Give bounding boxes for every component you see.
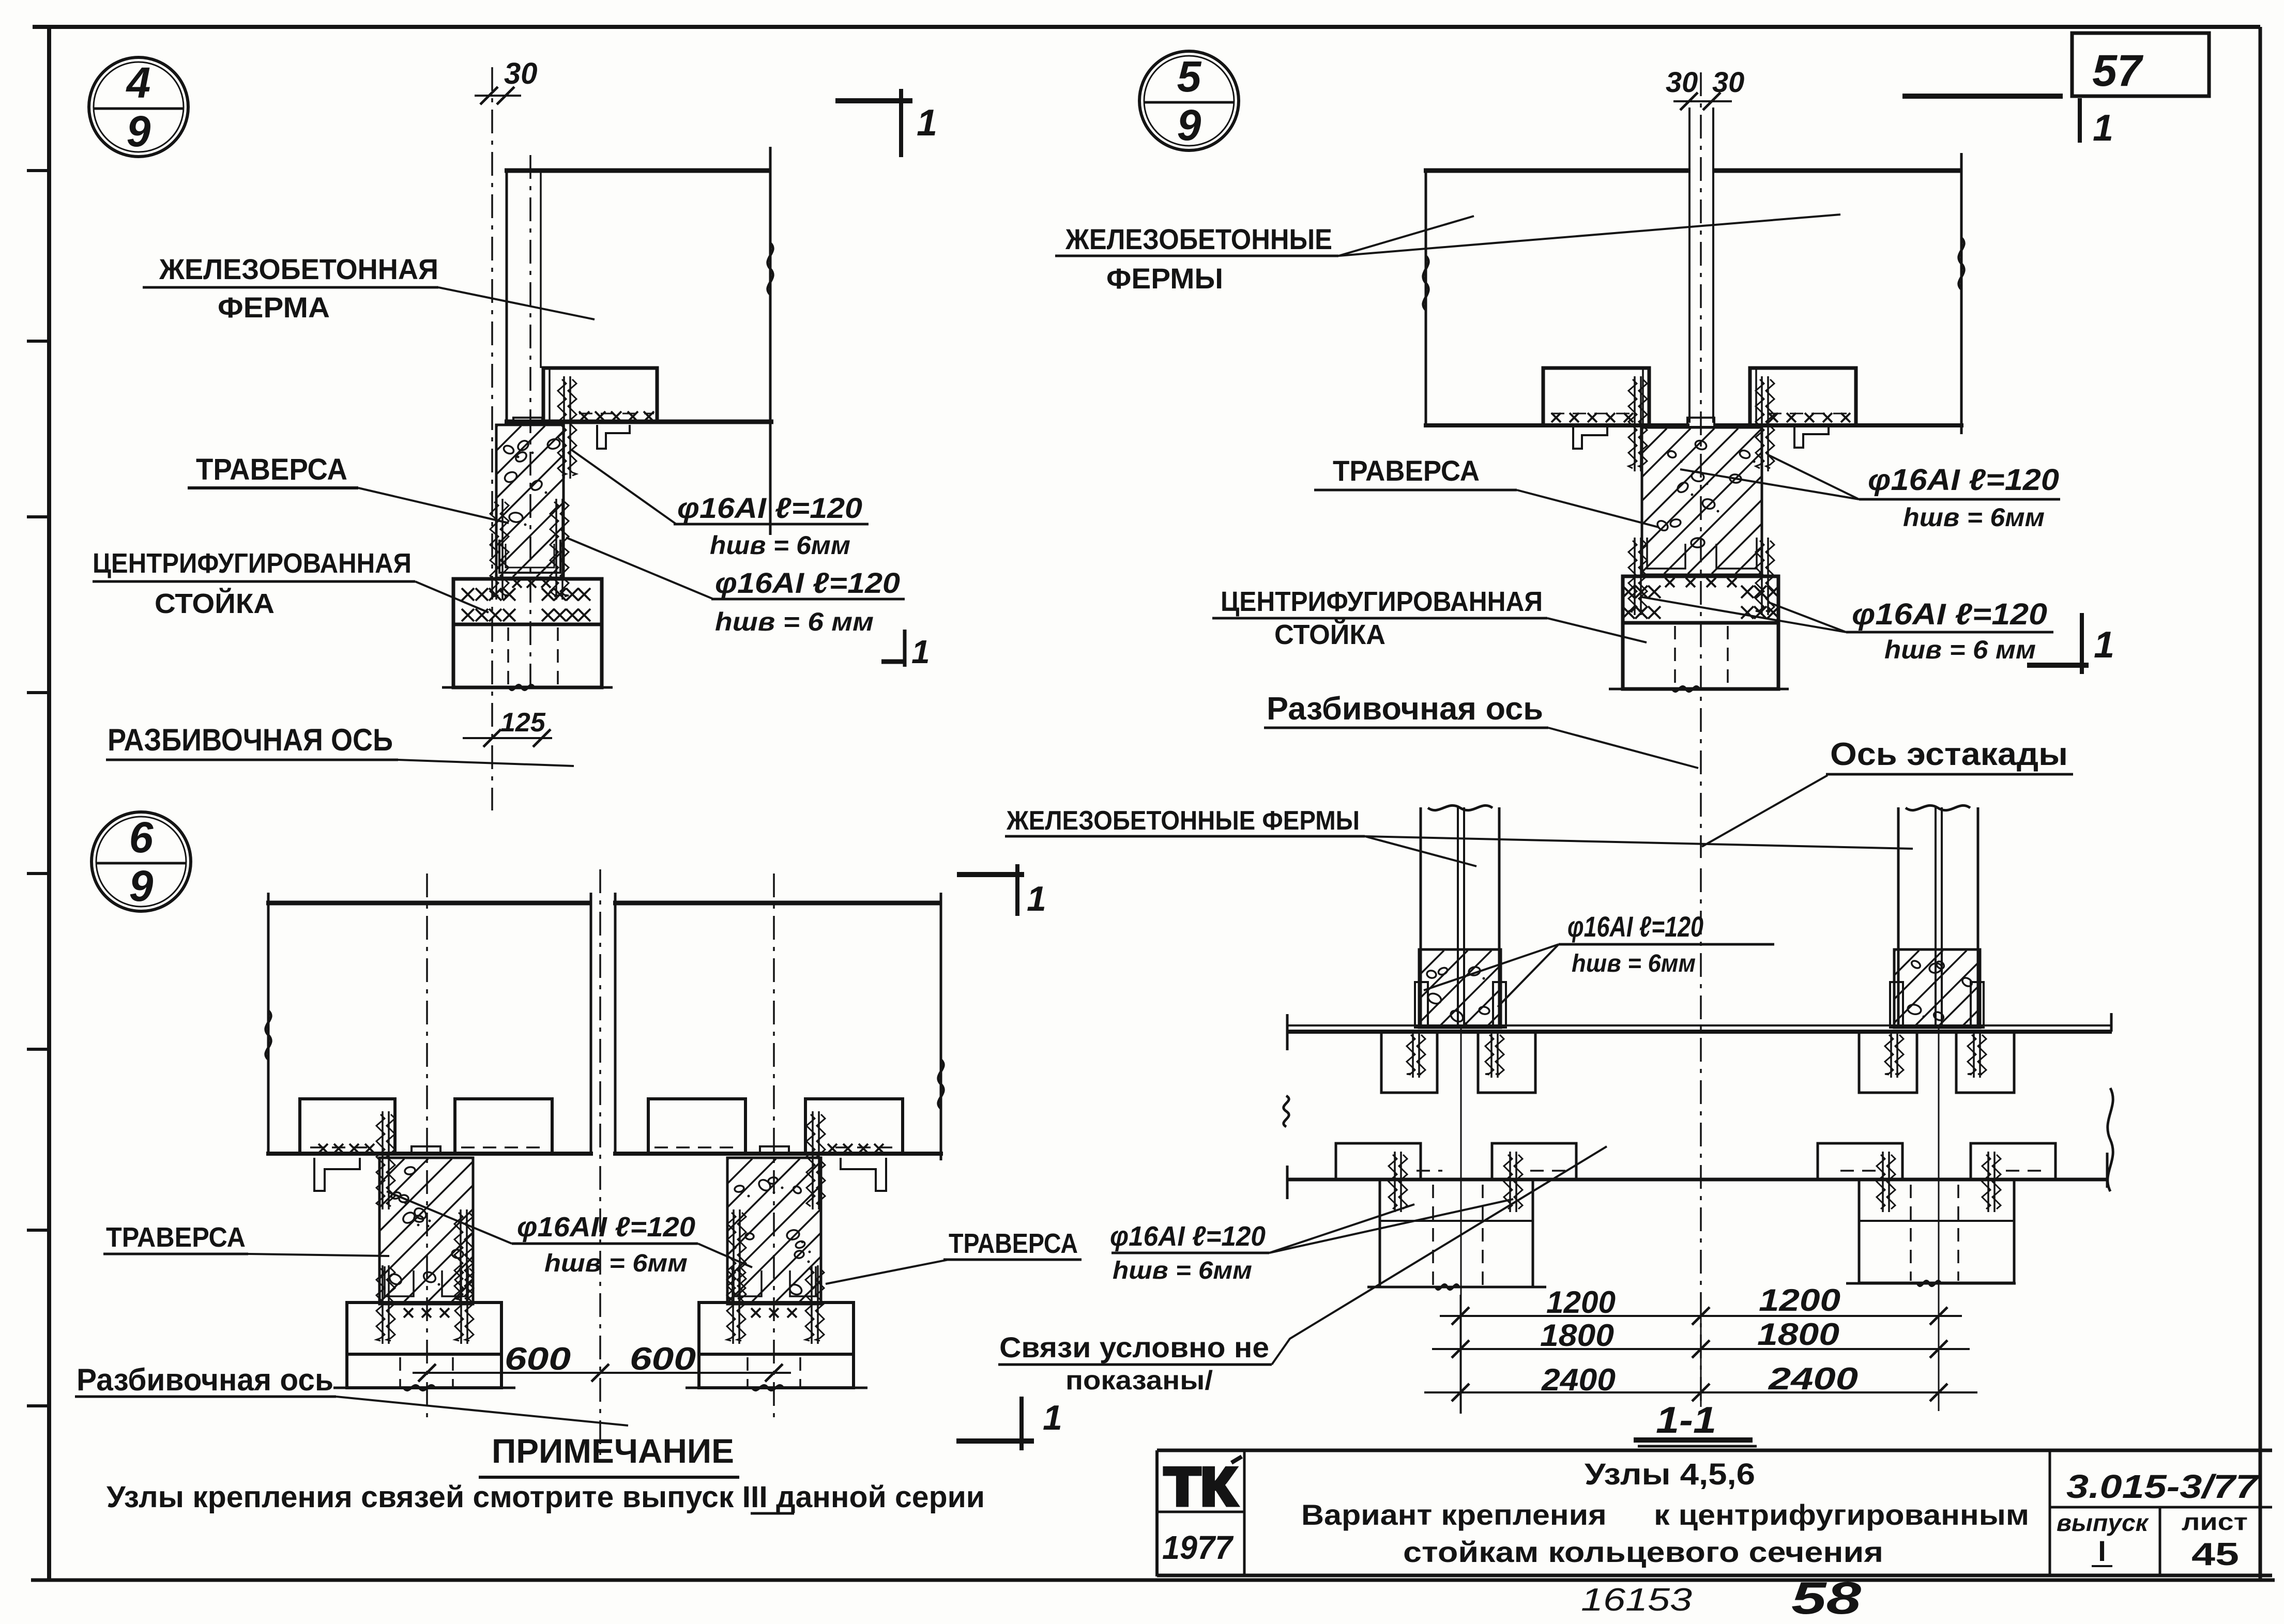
plate between trusses (detail 5) bbox=[1687, 418, 1714, 427]
svg-text:СТОЙКА: СТОЙКА bbox=[155, 588, 275, 619]
angle bracket left (detail 6) bbox=[314, 1158, 360, 1191]
left column bottom cut (detail 6) bbox=[333, 1385, 515, 1390]
right column body (detail 6) bbox=[699, 1354, 854, 1388]
svg-text:ТРАВЕРСА: ТРАВЕРСА bbox=[196, 453, 347, 486]
center axis (detail 6) bbox=[599, 869, 601, 1455]
weld marks (detail 6) bbox=[318, 1144, 884, 1153]
seat anchor rod right (detail 6) bbox=[806, 1111, 825, 1209]
svg-text:2400: 2400 bbox=[1541, 1362, 1616, 1397]
label железобетонная ферма (detail 4) bbox=[143, 253, 438, 324]
left truss (detail 6) bbox=[266, 893, 593, 1154]
left pair top break (section 1-1) bbox=[1428, 805, 1493, 810]
svg-text:показаны/: показаны/ bbox=[1065, 1366, 1213, 1396]
right truss break (detail 5) bbox=[1959, 238, 1964, 289]
column head (detail 4) bbox=[453, 579, 602, 624]
archive number 16153 bbox=[1581, 1582, 1692, 1618]
traverse hatched block (detail 5) bbox=[1498, 427, 1928, 575]
column body (detail 4) bbox=[453, 624, 602, 687]
svg-text:Вариант крепления к центрифуг: Вариант крепления к центрифугированным bbox=[1301, 1498, 2029, 1531]
lower boxes left (section 1-1) bbox=[1336, 1143, 1576, 1212]
svg-text:лист: лист bbox=[2182, 1508, 2248, 1535]
left truss break (detail 5) bbox=[1423, 256, 1428, 310]
svg-text:ЦЕНТРИФУГИРОВАННАЯ: ЦЕНТРИФУГИРОВАННАЯ bbox=[1221, 586, 1543, 617]
column head anchors (detail 5) bbox=[1622, 578, 1779, 619]
svg-text:ЖЕЛЕЗОБЕТОННЫЕ ФЕРМЫ: ЖЕЛЕЗОБЕТОННЫЕ ФЕРМЫ bbox=[1006, 806, 1360, 836]
right band break (section 1-1) bbox=[2108, 1088, 2113, 1191]
left traverse channel+rod (detail 6) bbox=[385, 1209, 473, 1303]
truss edge break (detail 4) bbox=[768, 243, 773, 295]
left traverse hatched (detail 6) bbox=[236, 1158, 618, 1304]
label ф16АI l=120 lower (detail 4) bbox=[711, 566, 905, 636]
svg-text:φ16АΙ ℓ=120: φ16АΙ ℓ=120 bbox=[715, 566, 900, 599]
leader to column (detail 5) bbox=[1547, 618, 1647, 642]
label связи условно не показаны bbox=[998, 1331, 1272, 1396]
section mark 1 bottom (detail 4) bbox=[881, 630, 930, 670]
dimension 30 30 (detail 5) bbox=[1666, 66, 1744, 110]
left column plan (section 1-1) bbox=[1380, 1179, 1533, 1287]
center axis (section 1-1) bbox=[1700, 868, 1702, 1407]
svg-text:1: 1 bbox=[2094, 624, 2114, 666]
svg-text:1977: 1977 bbox=[1162, 1529, 1234, 1566]
right truss (detail 5) bbox=[1713, 153, 1963, 434]
svg-text:57: 57 bbox=[2092, 46, 2144, 96]
right column axis (detail 6) bbox=[773, 874, 775, 1421]
section mark 1 bottom (detail 6) bbox=[956, 1397, 1062, 1450]
label ф16АI (section 1-1 bottom-left) bbox=[1110, 1221, 1269, 1284]
лист 45 cell bbox=[2182, 1508, 2248, 1572]
svg-text:4: 4 bbox=[126, 58, 151, 107]
svg-text:ТРАВЕРСА: ТРАВЕРСА bbox=[106, 1222, 246, 1253]
label разбивочная ось (detail 4) bbox=[106, 723, 398, 760]
svg-text:1: 1 bbox=[1027, 879, 1046, 918]
right truss break (detail 6) bbox=[938, 1060, 943, 1109]
label ф16АI (section 1-1 top) bbox=[1559, 910, 1774, 977]
выпуск I cell bbox=[2057, 1509, 2150, 1567]
angle bracket right (detail 6) bbox=[841, 1158, 886, 1191]
svg-text:ЖЕЛЕЗОБЕТОННАЯ: ЖЕЛЕЗОБЕТОННАЯ bbox=[159, 253, 438, 285]
right traverse hatched (detail 6) bbox=[584, 1158, 966, 1304]
column bottom cut (detail 4) bbox=[442, 685, 613, 690]
svg-text:hшв = 6мм: hшв = 6мм bbox=[1903, 503, 2045, 532]
upper traverse line (section 1-1) bbox=[1286, 1013, 2112, 1050]
svg-text:φ16АΙΙ ℓ=120: φ16АΙΙ ℓ=120 bbox=[517, 1212, 695, 1243]
border frame bottom bbox=[31, 1579, 2275, 1582]
border frame top bbox=[33, 25, 2260, 29]
detail marker 4/9 bbox=[89, 57, 188, 157]
border frame left bbox=[47, 25, 51, 1582]
axis line (разбивочная ось) detail 4 bbox=[491, 67, 493, 810]
svg-text:hшв = 6мм: hшв = 6мм bbox=[1572, 950, 1696, 977]
svg-text:1: 1 bbox=[1043, 1398, 1062, 1437]
svg-text:30: 30 bbox=[1666, 66, 1698, 98]
leader to truss (detail 4) bbox=[438, 287, 595, 319]
bearing seat (detail 4) bbox=[543, 368, 657, 422]
leader to left traverse (detail 6) bbox=[248, 1254, 389, 1256]
dimension row 1800 1800 bbox=[1432, 1317, 1970, 1358]
title line 3 bbox=[1403, 1536, 1883, 1568]
right truss (detail 6) bbox=[613, 893, 943, 1160]
truss outline (detail 4) bbox=[505, 147, 773, 535]
svg-text:hшв = 6мм: hшв = 6мм bbox=[544, 1250, 688, 1277]
truss gap edges (detail 5) bbox=[1689, 108, 1713, 423]
leaders (section 1-1 top) bbox=[1424, 944, 1559, 1007]
svg-text:ЖЕЛЕЗОБЕТОННЫЕ: ЖЕЛЕЗОБЕТОННЫЕ bbox=[1065, 223, 1332, 255]
bearing seats (detail 6) bbox=[300, 1099, 903, 1154]
leaders to trusses (detail 5) bbox=[1338, 215, 1840, 256]
svg-text:hшв = 6мм: hшв = 6мм bbox=[1113, 1257, 1252, 1284]
svg-text:2400: 2400 bbox=[1768, 1361, 1858, 1396]
dimension 125 (detail 4) bbox=[463, 708, 552, 747]
title block frame bbox=[1157, 1450, 2272, 1576]
left truss pair bars (section 1-1) bbox=[1421, 807, 1499, 1414]
svg-text:стойкам кольцевого сечения: стойкам кольцевого сечения bbox=[1403, 1536, 1883, 1568]
section mark 1 top (detail 4) bbox=[835, 89, 937, 157]
right column plan bottom (section 1-1) bbox=[1846, 1281, 2016, 1285]
leaders from ф16АII (detail 6) bbox=[387, 1191, 752, 1267]
detail marker 5/9 bbox=[1139, 51, 1239, 150]
right hatched joint (section 1-1) bbox=[1819, 949, 2062, 1028]
svg-text:φ16АΙ ℓ=120: φ16АΙ ℓ=120 bbox=[677, 492, 862, 524]
leader связи bbox=[1272, 1146, 1607, 1365]
upper anchor pockets right (section 1-1) bbox=[1859, 1032, 2014, 1093]
label ф16АI l=120 upper (detail 4) bbox=[674, 492, 869, 560]
svg-text:φ16АΙ ℓ=120: φ16АΙ ℓ=120 bbox=[1852, 597, 2047, 631]
right pair top break (section 1-1) bbox=[1906, 805, 1970, 810]
sheet number 58 bbox=[1791, 1572, 1861, 1623]
traverse bottom rods (detail 4) bbox=[490, 499, 569, 600]
left truss (detail 5) bbox=[1424, 171, 1689, 425]
column head anchor hatch (detail 4) bbox=[462, 578, 590, 621]
label разбивочная ось (detail 6) bbox=[75, 1362, 336, 1397]
label траверса left (detail 6) bbox=[103, 1222, 248, 1254]
svg-text:ЦЕНТРИФУГИРОВАННАЯ: ЦЕНТРИФУГИРОВАННАЯ bbox=[93, 548, 412, 579]
note text bbox=[106, 1480, 985, 1514]
svg-text:Узлы крепления связей смотрите: Узлы крепления связей смотрите выпуск II… bbox=[106, 1480, 985, 1514]
section title 1-1 bbox=[1634, 1400, 1757, 1446]
detail marker 6/9 bbox=[92, 812, 191, 911]
svg-text:1200: 1200 bbox=[1546, 1285, 1616, 1320]
svg-text:9: 9 bbox=[127, 107, 151, 156]
svg-text:Связи условно не: Связи условно не bbox=[999, 1331, 1269, 1363]
svg-text:ФЕРМА: ФЕРМА bbox=[218, 291, 330, 324]
svg-text:I: I bbox=[2098, 1535, 2106, 1567]
traverse channels (detail 5) bbox=[1647, 538, 1757, 569]
page number box bbox=[2072, 33, 2209, 96]
svg-text:30: 30 bbox=[504, 57, 538, 90]
svg-text:hшв = 6 мм: hшв = 6 мм bbox=[715, 607, 874, 636]
svg-text:1800: 1800 bbox=[1540, 1318, 1614, 1353]
svg-text:ФЕРМЫ: ФЕРМЫ bbox=[1106, 262, 1223, 295]
doc number 3.015-3/77 bbox=[2066, 1468, 2260, 1505]
label ф16АI upper (detail 5) bbox=[1859, 463, 2060, 532]
dimension row 1200 1200 bbox=[1440, 1283, 1962, 1414]
right column head (detail 6) bbox=[699, 1265, 854, 1354]
right seat (detail 5) bbox=[1750, 368, 1856, 425]
svg-text:600: 600 bbox=[505, 1341, 571, 1377]
svg-text:Ось эстакады: Ось эстакады bbox=[1830, 737, 2068, 772]
label железобетонные фермы (section 1-1) bbox=[1005, 806, 1365, 836]
leader to column (detail 4) bbox=[415, 581, 489, 612]
svg-text:5: 5 bbox=[1177, 52, 1202, 101]
svg-text:выпуск: выпуск bbox=[2057, 1509, 2150, 1536]
svg-text:hшв = 6 мм: hшв = 6 мм bbox=[1884, 635, 2036, 664]
left column head (detail 6) bbox=[347, 1265, 501, 1354]
left seat rod (detail 5) bbox=[1628, 376, 1647, 471]
leaders to traverse rods (detail 5) bbox=[1680, 455, 1859, 499]
right column bottom cut (detail 6) bbox=[686, 1385, 867, 1390]
angle bracket under seat (detail 4) bbox=[597, 425, 630, 449]
svg-text:Разбивочная ось: Разбивочная ось bbox=[77, 1362, 333, 1397]
label траверса right (detail 6) bbox=[943, 1228, 1082, 1260]
svg-text:ПРИМЕЧАНИЕ: ПРИМЕЧАНИЕ bbox=[492, 1432, 734, 1470]
svg-text:1: 1 bbox=[917, 102, 937, 144]
label центрифугированная стойка (detail 4) bbox=[93, 548, 415, 619]
svg-text:φ16АΙ ℓ=120: φ16АΙ ℓ=120 bbox=[1110, 1221, 1266, 1252]
label ось эстакады bbox=[1826, 737, 2073, 774]
left truss break (detail 6) bbox=[266, 1010, 271, 1060]
leader to traverse (detail 5) bbox=[1517, 490, 1658, 527]
svg-text:1800: 1800 bbox=[1757, 1317, 1839, 1352]
plate on traverse top (detail 4) bbox=[513, 418, 542, 425]
svg-text:6: 6 bbox=[129, 813, 154, 862]
left column axis (detail 6) bbox=[426, 874, 428, 1421]
left band break (section 1-1) bbox=[1284, 1096, 1289, 1127]
traverse bottom rods (detail 5) bbox=[1628, 538, 1774, 615]
section mark 1 top (detail 6) bbox=[957, 864, 1046, 918]
leaders to bottom rods (detail 5) bbox=[1641, 597, 1846, 632]
right truss pair bars (section 1-1) bbox=[1898, 807, 1978, 1411]
leader to axis (detail 5) bbox=[1548, 728, 1698, 768]
leader to rod lower (detail 4) bbox=[566, 538, 713, 599]
svg-text:1-1: 1-1 bbox=[1656, 1400, 1716, 1441]
leader to estakada axis bbox=[1702, 775, 1828, 847]
note примечание heading bbox=[479, 1432, 739, 1477]
lower boxes right (section 1-1) bbox=[1818, 1143, 2055, 1212]
anchor rod in seat (detail 4) bbox=[558, 376, 576, 479]
column head (detail 5) bbox=[1623, 576, 1778, 623]
left joint side rods (section 1-1) bbox=[1415, 982, 1506, 1028]
right traverse channel+rod (detail 6) bbox=[727, 1209, 816, 1303]
title line 2 bbox=[1301, 1498, 2029, 1531]
column body (detail 5) bbox=[1623, 623, 1778, 689]
svg-text:РАЗБИВОЧНАЯ ОСЬ: РАЗБИВОЧНАЯ ОСЬ bbox=[108, 723, 393, 757]
right seat rod (detail 5) bbox=[1756, 376, 1774, 471]
angle bracket right (detail 5) bbox=[1794, 426, 1829, 448]
left frame ruler ticks bbox=[27, 171, 49, 1406]
truss web line (detail 4) bbox=[540, 171, 542, 368]
angle bracket left (detail 5) bbox=[1573, 427, 1607, 449]
svg-text:45: 45 bbox=[2191, 1537, 2239, 1572]
column dashed lines (detail 5) bbox=[1675, 626, 1728, 687]
label траверса (detail 5) bbox=[1314, 454, 1517, 490]
leader to axis (detail 4) bbox=[398, 760, 574, 766]
weld marks along bottom chord (detail 4) bbox=[579, 411, 654, 422]
title узлы 4,5,6 bbox=[1585, 1458, 1755, 1491]
dimension row 2400 2400 bbox=[1424, 1361, 1977, 1401]
TK logo bbox=[1164, 1457, 1242, 1517]
section mark 1 bottom (detail 5) bbox=[2027, 613, 2114, 674]
dimension 30 (detail 4) bbox=[475, 57, 538, 104]
svg-text:3.015-3/77: 3.015-3/77 bbox=[2066, 1468, 2260, 1505]
border frame right bbox=[2259, 27, 2262, 1580]
leader to right traverse (detail 6) bbox=[826, 1260, 949, 1284]
label ф16АI lower (detail 5) bbox=[1846, 597, 2053, 664]
left seat (detail 5) bbox=[1543, 368, 1649, 425]
weld marks chord (detail 5) bbox=[1551, 413, 1851, 422]
leader to traverse (detail 4) bbox=[358, 488, 509, 523]
year 1977 bbox=[1162, 1529, 1234, 1566]
dimension 600 600 (detail 6) bbox=[413, 1341, 791, 1382]
svg-text:600: 600 bbox=[630, 1341, 696, 1377]
seat chord dashes (detail 6) bbox=[310, 1146, 892, 1148]
left hatched joint (section 1-1) bbox=[1344, 949, 1587, 1028]
leaders to truss pairs (section 1-1) bbox=[1365, 836, 1913, 866]
svg-text:ТК: ТК bbox=[1164, 1457, 1237, 1517]
label траверса (detail 4) bbox=[188, 453, 358, 488]
svg-text:125: 125 bbox=[500, 708, 546, 738]
svg-text:16153: 16153 bbox=[1581, 1582, 1692, 1618]
svg-text:9: 9 bbox=[1177, 101, 1201, 149]
svg-text:ТРАВЕРСА: ТРАВЕРСА bbox=[949, 1228, 1078, 1259]
plates on traverse tops (detail 6) bbox=[412, 1146, 789, 1155]
leader to rod upper (detail 4) bbox=[571, 450, 676, 524]
svg-text:Разбивочная ось: Разбивочная ось bbox=[1267, 691, 1543, 727]
svg-text:Узлы 4,5,6: Узлы 4,5,6 bbox=[1585, 1458, 1755, 1491]
column inner dashed lines (detail 4) bbox=[508, 627, 558, 685]
left column plan bottom (section 1-1) bbox=[1367, 1284, 1546, 1289]
label ф16АII l=120 (detail 6) bbox=[512, 1212, 698, 1277]
svg-text:СТОЙКА: СТОЙКА bbox=[1274, 619, 1385, 650]
traverse channel (detail 4) bbox=[499, 540, 560, 573]
left column body (detail 6) bbox=[347, 1354, 501, 1388]
svg-text:1200: 1200 bbox=[1759, 1283, 1840, 1317]
axis ось эстакады (detail 5 + section) bbox=[1700, 72, 1702, 858]
column axis detail 4 bbox=[529, 155, 531, 693]
label железобетонные фермы (detail 5) bbox=[1055, 223, 1338, 295]
svg-text:1: 1 bbox=[2093, 108, 2113, 149]
leader to axis (detail 6) bbox=[336, 1397, 628, 1426]
upper anchor pockets left (section 1-1) bbox=[1381, 1032, 1535, 1093]
right column plan (section 1-1) bbox=[1859, 1179, 2014, 1283]
lower traverse line (section 1-1) bbox=[1286, 1153, 2108, 1199]
label центрифугированная стойка (detail 5) bbox=[1212, 586, 1547, 650]
svg-text:30: 30 bbox=[1712, 66, 1744, 98]
seat anchor rod left (detail 6) bbox=[376, 1111, 395, 1209]
svg-text:9: 9 bbox=[129, 862, 154, 910]
section mark 1 top (detail 5) bbox=[1902, 96, 2113, 149]
svg-text:ТРАВЕРСА: ТРАВЕРСА bbox=[1333, 454, 1480, 487]
column bottom cut (detail 5) bbox=[1609, 686, 1789, 691]
label разбивочная ось (detail 5) bbox=[1264, 691, 1548, 728]
svg-text:φ16АΙ ℓ=120: φ16АΙ ℓ=120 bbox=[1868, 463, 2059, 497]
leaders (section 1-1 bottom-left) bbox=[1269, 1199, 1513, 1253]
svg-text:hшв = 6мм: hшв = 6мм bbox=[710, 531, 850, 560]
right joint side rods (section 1-1) bbox=[1890, 982, 1984, 1028]
traverse hatched block (detail 4) bbox=[346, 425, 735, 578]
svg-text:φ16АΙ ℓ=120: φ16АΙ ℓ=120 bbox=[1567, 910, 1703, 943]
svg-text:1: 1 bbox=[911, 633, 930, 670]
svg-text:58: 58 bbox=[1791, 1572, 1861, 1623]
